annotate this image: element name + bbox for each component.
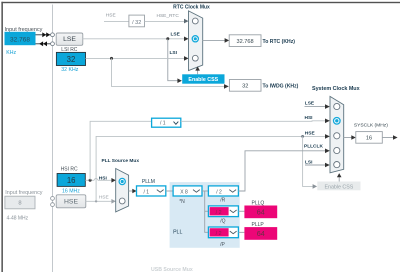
arrow into 32.768 box: [225, 38, 230, 43]
box IWDG value 32: [229, 80, 261, 92]
HSE box: [56, 195, 86, 208]
svg-text:USB Source Mux: USB Source Mux: [151, 267, 193, 272]
wire HSI up to HSIDIV: [90, 121, 152, 180]
svg-text:To RTC (KHz): To RTC (KHz): [263, 39, 296, 45]
wire LSI to IWDG: [112, 58, 225, 86]
svg-text:LSI: LSI: [305, 159, 313, 165]
wire HSE net: [86, 200, 112, 202]
wire LSE in bottom: [36, 43, 51, 45]
wire HSE down to css: [303, 136, 313, 186]
svg-text:LSE: LSE: [305, 101, 315, 107]
svg-text:PLLP: PLLP: [252, 222, 265, 228]
radio HSI selected: [119, 178, 125, 184]
wire HSE to /32: [104, 20, 129, 22]
node HSE css junction: [301, 135, 304, 138]
wire Q to PLLQ: [238, 210, 244, 212]
radio LSI: [192, 55, 198, 61]
svg-text:Input frequency: Input frequency: [5, 190, 42, 196]
node circle hse bottom: [51, 203, 55, 207]
arrow HSE_RTC into mux: [184, 19, 189, 24]
LSE box: [56, 33, 83, 45]
box PLLQ: [244, 206, 277, 219]
arrow PLLCLK into sys mux: [325, 149, 330, 154]
wire HSI net: [85, 179, 94, 181]
node LSI junction: [110, 57, 113, 60]
svg-text:LSE: LSE: [63, 36, 76, 43]
dropdown /R: [208, 186, 238, 196]
arrow HSE into pll mux: [111, 199, 115, 204]
button Enable CSS (RTC): [182, 74, 224, 83]
svg-text:32 KHz: 32 KHz: [61, 67, 78, 73]
wire N branch down: [205, 191, 209, 232]
wire hop over HSE rail: [94, 179, 98, 181]
mux PLL trapezoid: [116, 169, 129, 212]
svg-text:16: 16: [67, 176, 76, 185]
svg-text:PLL Source Mux: PLL Source Mux: [102, 158, 140, 164]
arrow LSE into sys mux: [325, 104, 330, 109]
arrows left pair: [39, 41, 47, 46]
svg-text:HSE: HSE: [64, 199, 78, 206]
svg-text:32.768: 32.768: [10, 36, 30, 43]
wire LSE in top: [36, 34, 51, 36]
box PLLP: [244, 227, 277, 240]
wire branch to Q: [205, 210, 209, 212]
LSI RC box: [56, 52, 85, 65]
svg-text:SYSCLK (MHz): SYSCLK (MHz): [354, 122, 388, 128]
mux System trapezoid: [330, 96, 344, 172]
wire PLLM to N: [166, 190, 173, 192]
wire PLL mux out: [129, 190, 133, 192]
dropdown xN: [173, 186, 202, 196]
arrow into PLLM: [132, 189, 136, 194]
arrow HSI into sys mux: [325, 119, 330, 124]
svg-text:/ 2: / 2: [216, 190, 222, 196]
svg-text:To IWDG (KHz): To IWDG (KHz): [263, 84, 299, 90]
svg-text:System Clock Mux: System Clock Mux: [312, 86, 360, 92]
wire /32 to mux: [145, 20, 185, 22]
svg-text:/ 2: / 2: [216, 231, 222, 237]
dropdown PLLM /1: [137, 186, 166, 196]
box input 32.768: [5, 32, 36, 45]
wire LSI to sys mux: [305, 164, 325, 166]
svg-text:/ 1: / 1: [160, 121, 166, 127]
svg-text:HSI: HSI: [99, 175, 108, 181]
wire sysclk out: [344, 137, 352, 139]
radio HSE_RTC: [192, 18, 198, 24]
svg-text:/ 32: / 32: [132, 20, 141, 26]
svg-text:LSI: LSI: [170, 50, 178, 56]
svg-text:Enable CSS: Enable CSS: [324, 184, 353, 190]
svg-text:64: 64: [257, 229, 265, 238]
wire HSI to mux: [98, 179, 112, 181]
dropdown /Q pink: [208, 206, 238, 217]
wire HSIDIV to system mux: [181, 120, 326, 123]
radio LSE: [334, 103, 340, 109]
node circle top: [51, 33, 55, 37]
svg-text:64: 64: [257, 208, 265, 217]
node HSI junction: [89, 179, 92, 182]
svg-text:PLLQ: PLLQ: [252, 200, 265, 206]
arrow LSI into sys mux: [325, 163, 330, 168]
arrow LSI into mux: [184, 56, 189, 61]
wire LSI net: [86, 57, 185, 59]
box input 8: [5, 196, 35, 209]
wire LSE net: [83, 38, 185, 40]
svg-text:/ 1: / 1: [144, 190, 150, 196]
svg-text:*N: *N: [179, 199, 185, 205]
wire N to R: [202, 190, 208, 192]
svg-text:HSE: HSE: [99, 195, 109, 201]
mux RTC trapezoid: [189, 11, 203, 71]
svg-text:/ 2: / 2: [216, 210, 222, 216]
button Enable CSS gray: [317, 182, 360, 191]
arrow HSI into pll mux: [111, 178, 115, 183]
node HSE junction: [95, 200, 97, 202]
arrow HSE into sys mux: [325, 134, 330, 139]
svg-text:LSE: LSE: [171, 31, 181, 37]
HSI RC box: [57, 174, 85, 187]
node circle hse top: [51, 197, 55, 201]
svg-text:PLL: PLL: [173, 230, 182, 236]
svg-text:RTC Clock Mux: RTC Clock Mux: [173, 5, 210, 11]
arrows right pair: [42, 32, 50, 37]
frame left border: [1, 2, 3, 272]
wire LSE to CSS: [168, 39, 178, 81]
node circle bottom: [51, 42, 55, 46]
dropdown HSIDIV /1: [152, 118, 181, 127]
box RTC value 32.768: [229, 35, 261, 47]
wire P to PLLP: [238, 231, 244, 233]
svg-text:32: 32: [67, 55, 76, 64]
svg-text:16 MHz: 16 MHz: [62, 189, 80, 195]
arrow LSE into mux: [184, 37, 189, 42]
svg-text:KHz: KHz: [6, 50, 16, 56]
svg-text:32.768: 32.768: [237, 39, 254, 45]
svg-text:8: 8: [18, 201, 21, 207]
arrow Enable CSS to mux bottom: [197, 70, 199, 74]
arrow into Enable CSS: [177, 78, 182, 83]
wire HSE up to system mux: [96, 136, 325, 201]
svg-text:PLLCLK: PLLCLK: [304, 144, 323, 150]
arrow gray css to mux bottom: [338, 177, 340, 182]
svg-text:HSI RC: HSI RC: [61, 166, 78, 172]
wire RTC mux output: [203, 39, 225, 41]
radio HSE: [119, 198, 125, 204]
radio HSI selected: [334, 118, 341, 125]
svg-text:HSE: HSE: [305, 131, 316, 137]
svg-text:16: 16: [366, 136, 372, 142]
arrow into gray Enable CSS: [313, 184, 318, 189]
radio HSE: [334, 133, 340, 139]
svg-text:PLLM: PLLM: [142, 179, 155, 185]
svg-text:4-48 MHz: 4-48 MHz: [7, 215, 29, 221]
radio PLLCLK: [334, 147, 340, 153]
svg-text:/P: /P: [220, 242, 225, 248]
node LSE junction: [166, 37, 169, 40]
svg-text:X 8: X 8: [180, 190, 188, 196]
left rail: [52, 5, 54, 272]
arrow sysclk end: [393, 135, 398, 140]
wire LSE to sys mux: [305, 106, 326, 108]
box SYSCLK 16: [356, 132, 383, 144]
svg-text:Enable CSS: Enable CSS: [188, 77, 218, 83]
panel PLL: [170, 182, 240, 248]
svg-text:/R: /R: [220, 198, 225, 204]
wire sysclk to right: [382, 137, 393, 139]
svg-text:HSE_RTC: HSE_RTC: [157, 13, 180, 19]
svg-text:HSI: HSI: [305, 115, 314, 121]
svg-text:/Q: /Q: [220, 218, 225, 224]
wire R up to PLLCLK: [238, 151, 325, 191]
frame top border: [1, 2, 400, 3]
dropdown /P pink: [208, 227, 238, 238]
svg-text:32: 32: [242, 84, 248, 90]
radio LSE selected: [192, 36, 198, 42]
divider /32 box: [129, 15, 145, 27]
arrow into IWDG box: [224, 84, 229, 89]
radio LSI: [334, 162, 340, 168]
svg-text:HSE: HSE: [106, 13, 116, 19]
arrow into 16 box: [351, 135, 356, 140]
